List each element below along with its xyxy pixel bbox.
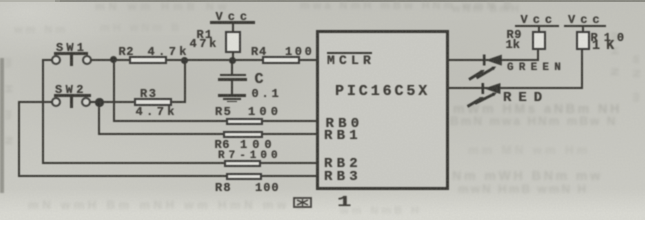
switch SW2 left terminal <box>51 97 61 107</box>
left edge smudge <box>0 58 4 193</box>
resistor R4 body <box>262 56 300 64</box>
wire: chip to RED LED row <box>448 87 583 89</box>
pin RB2 label <box>324 159 362 169</box>
pin RB0 label <box>326 119 364 129</box>
LED D1 GREEN <box>466 52 508 82</box>
resistor R10 label <box>591 33 631 43</box>
wire: vertical R3 right up to rail <box>184 59 186 102</box>
switch SW2 label <box>55 85 87 95</box>
resistor R6 label <box>215 140 230 150</box>
caption 图 1 (figure 1) <box>293 197 312 208</box>
switch SW1 plunger <box>70 54 73 66</box>
scan top edge line <box>55 0 645 2</box>
switch SW1 left terminal <box>51 55 61 65</box>
switch SW1 label <box>56 43 87 53</box>
resistor R7 body <box>224 160 261 167</box>
wire: main rail y=59 from SW1 to chip (through R2, R4) <box>90 59 318 61</box>
bleed-through text rows (faint reverse-side print) <box>95 1 230 13</box>
switch SW1 bar <box>54 52 88 55</box>
resistor R7 label <box>218 151 282 161</box>
node: junction R2/R3 right <box>181 57 188 64</box>
Vcc symbol over R10 <box>568 15 605 25</box>
pin RB1 label <box>324 131 362 141</box>
wire: RB3 row (R8) to chip <box>18 175 318 177</box>
resistor R3 body <box>134 98 172 106</box>
wire: SW2 left vertical down to RB3 row <box>18 101 20 177</box>
wire: RB2 row (R7) to chip <box>42 162 318 164</box>
wire: SW1 left stub <box>42 59 52 61</box>
resistor R2 body <box>129 56 167 64</box>
GREEN label <box>507 63 566 73</box>
node: junction R1/C/rail <box>229 57 236 64</box>
wire: vertical from SW2 junction down to RB1 row <box>98 101 100 135</box>
capacitor C <box>231 61 233 74</box>
switch SW1 right terminal <box>82 55 92 65</box>
resistor R9 label <box>507 30 522 40</box>
wire: RED row up to R10 <box>581 49 583 89</box>
wire: RB0 row (R5) to chip <box>113 120 318 122</box>
Vcc symbol over R9 <box>521 15 558 25</box>
wire: RB1 row (R6) to chip <box>98 133 318 135</box>
resistor R8 body <box>226 173 262 180</box>
chip name PIC16C5X <box>335 87 430 97</box>
wire: GREEN row up to R9 <box>537 49 539 60</box>
resistor R4 label <box>251 47 267 57</box>
resistor R8 label <box>215 183 232 193</box>
pin MCLR overline <box>327 52 372 54</box>
wire: SW1 left vertical down to RB2 row <box>42 59 44 164</box>
resistor R5 label <box>215 107 232 117</box>
resistor R3 label <box>140 89 157 99</box>
pin RB3 label <box>324 172 362 182</box>
resistor R5 body <box>226 118 263 125</box>
wire: SW2 right row to R3 <box>89 101 186 103</box>
soft scan mottling <box>20 35 350 155</box>
resistor R9 body <box>532 31 546 50</box>
capacitor C label <box>255 75 264 85</box>
wire: SW2 left stub <box>18 101 52 103</box>
resistor R10 body <box>576 31 590 50</box>
RED label <box>503 93 549 103</box>
node: junction SW2/R3/R6 <box>95 98 104 107</box>
wire: R1 bottom to rail <box>232 52 234 60</box>
switch SW2 right terminal <box>81 97 91 107</box>
node: junction SW1/R2/R5 <box>110 56 117 63</box>
resistor R1 label <box>197 30 214 40</box>
switch SW2 bar <box>54 94 91 97</box>
op-amp U1 chip body <box>316 30 449 190</box>
wire: vertical from SW1 junction down to RB0 row <box>113 59 115 122</box>
LED D2 RED <box>466 80 508 110</box>
resistor R6 body <box>223 131 263 138</box>
resistor R2 label <box>119 47 134 57</box>
switch SW2 plunger <box>70 96 73 108</box>
ground <box>218 94 247 97</box>
Vcc symbol over R1 <box>216 12 253 22</box>
resistor R1 body <box>225 31 241 53</box>
wire: chip to GREEN LED row <box>448 59 539 61</box>
pin MCLR label <box>327 56 375 66</box>
